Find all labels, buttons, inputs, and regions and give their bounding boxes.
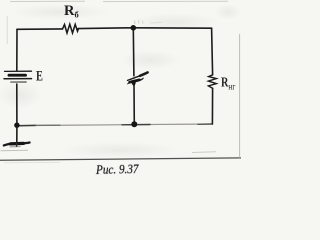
figure bottom rule <box>0 158 241 160</box>
wire left rail upper <box>16 29 18 70</box>
label Rнг <box>221 74 236 92</box>
junction bottom middle node <box>131 121 137 127</box>
wire top rail right segment <box>133 27 211 29</box>
battery E plates <box>4 71 32 82</box>
wire top rail left segment <box>17 28 63 30</box>
zener diode VD (stabilitron) <box>127 72 148 85</box>
paper background <box>0 0 241 181</box>
junction bottom left node <box>14 123 19 128</box>
wire left rail lower <box>16 84 18 125</box>
junction top node <box>131 25 137 31</box>
wire middle branch lower <box>133 85 135 124</box>
wire top rail middle segment <box>78 27 133 30</box>
svg-text:E: E <box>36 68 43 84</box>
ground <box>4 127 30 147</box>
svg-text:Рис. 9.37: Рис. 9.37 <box>95 162 139 177</box>
wire middle branch upper <box>132 28 135 76</box>
wire right rail lower <box>211 88 213 124</box>
resistor Rнг (right zigzag) <box>208 75 216 89</box>
wire right rail upper <box>212 28 213 75</box>
wire bottom rail <box>17 124 213 126</box>
label E <box>36 68 43 84</box>
scan border marks (decorative) <box>1 1 240 163</box>
resistor Rб (top zigzag) <box>63 24 79 33</box>
